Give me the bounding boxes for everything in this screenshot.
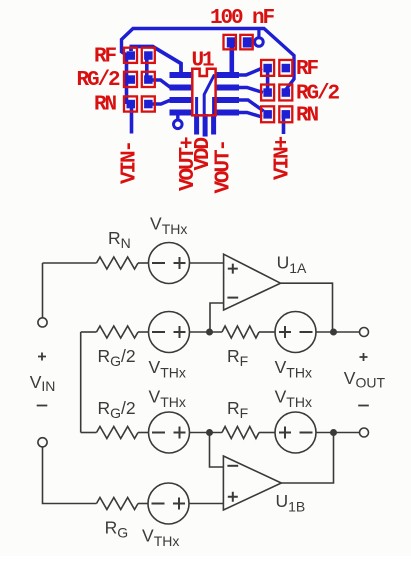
terminal VOUT+ [360,328,369,337]
wire VIN+ stub [282,115,286,134]
wire U1 pin6 to right RN [239,100,264,111]
resistor RF left pads [127,51,136,60]
via right of capacitor [255,38,264,47]
resistor RG/2 right pads [263,88,272,97]
terminal VIN- [38,438,47,447]
svg-text:VIN+: VIN+ [272,136,295,180]
wire VIN- stub [130,105,134,134]
svg-text:VIN-: VIN- [119,142,142,184]
source VTHx row3 left [149,412,190,453]
wire bottom branch vertical [43,447,97,504]
source VTHx row4 [148,483,189,524]
terminal VOUT- [360,428,369,437]
U1 pads left [170,72,193,78]
wire U1 pin7 to right RG/2 [239,88,263,93]
resistor RG/2 left outline [124,72,137,87]
resistor RG [97,498,139,510]
capacitor C1 outline [224,35,236,50]
op-amp U1 body outline [192,69,215,116]
svg-text:U1: U1 [192,50,215,73]
wire VTHx to node [190,331,223,333]
resistor RG/2 left pads [127,75,136,84]
wire RN to U1 pin3 [150,100,170,104]
wire RF to U1 pin1 [130,47,182,77]
resistor RG/2 right outline [261,85,274,101]
wire top trace [122,29,295,91]
label + VIN [38,353,46,361]
wire U1A output [281,283,333,332]
terminal VIN+ [38,318,47,327]
wire U1B feedback [210,433,224,468]
wire VDD column [204,75,214,117]
wire left bus to RG/2 lower [81,432,97,434]
resistor RF left outline [124,48,137,63]
wire to output node [316,331,360,333]
wire right pad column [266,68,270,93]
svg-text:RG/2: RG/2 [296,83,340,106]
source VTHx row3 right [275,412,316,453]
wire RG/2 to U1 pin2 [150,80,171,88]
label - VOUT [358,405,369,407]
op-amp U1A [224,254,281,310]
source VTHx row2 right [275,312,316,353]
wire C1 left pad to U1 pin8 [230,45,235,74]
op-amp U1B [223,456,281,510]
resistor RG/2 upper [97,326,139,338]
wire U1 pin4 to via [176,113,179,120]
resistor RF upper [222,326,259,338]
resistor RF right outline [261,60,274,76]
wire U1 pin8 to right RF [239,68,262,75]
wire VTHx to U1A [190,262,224,264]
wire left input vertical top [42,263,44,318]
svg-text:VOUT-: VOUT- [212,141,235,194]
wire U1B output [281,433,333,484]
wire right pad column RF-RG/2 [145,56,149,80]
node row2 right [330,329,337,336]
wire C1 right pad to via [250,40,255,44]
node row2 left [206,329,213,336]
resistor RN right pads [263,110,272,119]
resistor RG/2 lower [97,427,139,439]
capacitor C1 pads [227,37,236,47]
wire left pad column [125,56,129,105]
resistor RN left outline [124,96,137,111]
source VTHx row1 [149,243,190,284]
svg-text:RG/2: RG/2 [77,69,121,92]
wire top branch left [43,262,97,264]
svg-text:RN: RN [94,94,117,117]
svg-text:RF: RF [296,58,319,81]
node row3 left [206,429,213,436]
wire U1 pin5 [239,113,262,118]
resistor RF right pads [263,64,272,73]
via [174,120,183,129]
wire VTHx to U1B [189,503,223,505]
wire left bus vertical [80,332,82,433]
wire U1A feedback [210,303,224,332]
wire via to top trace [257,30,260,37]
svg-text:100 nF: 100 nF [210,7,275,30]
resistor RN left pads [127,100,136,109]
source VTHx row2 left [149,312,190,353]
resistor RF lower [222,427,259,439]
wire left bus to RG/2 [81,331,97,333]
U1 pads right [216,72,239,78]
label + VOUT [360,353,368,361]
wire jog into RF left pad [122,52,129,56]
resistor RN right outline [261,106,274,122]
wire VOUT+ column [195,97,198,116]
wire RN to VTHx [138,262,149,264]
resistor RN [97,257,139,269]
svg-text:RN: RN [296,105,319,128]
label - VIN [37,405,48,407]
node row3 right [330,429,337,436]
svg-text:RF: RF [94,46,117,69]
wire VOUT- column [212,97,215,116]
